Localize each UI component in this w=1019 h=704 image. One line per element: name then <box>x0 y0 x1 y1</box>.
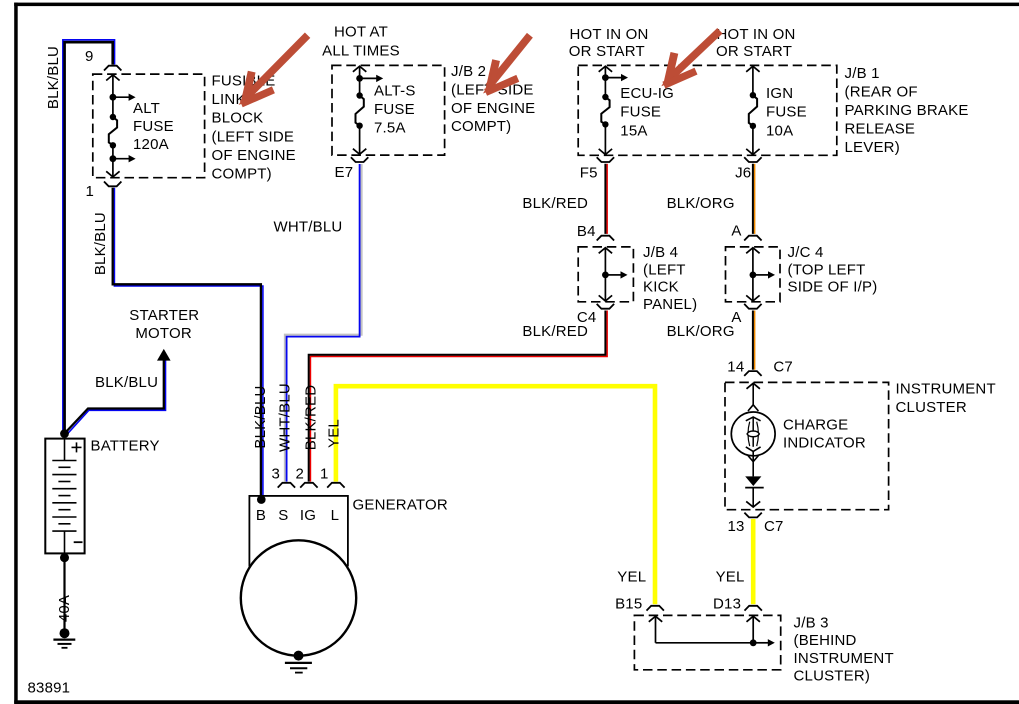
svg-text:83891: 83891 <box>28 680 71 697</box>
svg-text:J/B 1: J/B 1 <box>845 65 880 82</box>
svg-text:BLK/RED: BLK/RED <box>522 195 588 212</box>
label J/B 2 location <box>451 63 535 135</box>
connector B15 <box>615 596 664 613</box>
pin 2 <box>296 466 318 488</box>
svg-text:SIDE OF I/P): SIDE OF I/P) <box>788 279 878 296</box>
label J/C 4 location <box>788 244 878 296</box>
svg-text:IGN: IGN <box>766 85 793 102</box>
svg-text:J/B 4: J/B 4 <box>643 244 678 261</box>
svg-text:FUSE: FUSE <box>620 104 661 121</box>
wire W4 battery negative to ground <box>60 553 69 633</box>
svg-text:BLK/ORG: BLK/ORG <box>667 323 735 340</box>
svg-text:STARTER: STARTER <box>129 307 199 324</box>
svg-text:10A: 10A <box>766 122 793 139</box>
charge indicator lamp <box>731 383 775 476</box>
svg-text:INSTRUMENT: INSTRUMENT <box>794 650 894 667</box>
svg-text:CHARGE: CHARGE <box>783 417 848 434</box>
svg-text:C7: C7 <box>764 518 784 535</box>
fuse IGN FUSE 10A symbol <box>746 66 759 154</box>
svg-text:(LEFT SIDE: (LEFT SIDE <box>212 128 295 145</box>
svg-text:L: L <box>331 507 340 524</box>
fuse ALT FUSE 120A symbol <box>106 75 135 177</box>
svg-text:OF ENGINE: OF ENGINE <box>212 147 296 164</box>
svg-text:B4: B4 <box>577 223 596 240</box>
ground G2 (generator) <box>285 651 312 673</box>
label FUSIBLE LINK BLOCK location <box>212 73 296 183</box>
svg-text:BATTERY: BATTERY <box>91 437 160 454</box>
annotation arrow A2 (J/B 2) <box>483 35 530 93</box>
svg-text:ALL TIMES: ALL TIMES <box>322 43 400 60</box>
connector 13 C7 <box>728 513 784 535</box>
svg-text:C7: C7 <box>773 359 793 376</box>
svg-text:HOT IN ON: HOT IN ON <box>570 26 649 43</box>
svg-text:BLK/RED: BLK/RED <box>522 323 588 340</box>
svg-text:2: 2 <box>296 466 305 483</box>
svg-text:GENERATOR: GENERATOR <box>353 497 448 514</box>
connector D13 <box>713 596 762 613</box>
svg-text:BLOCK: BLOCK <box>212 110 264 127</box>
connector A (bottom) <box>731 304 761 326</box>
fuse ALT-S FUSE 7.5A symbol <box>353 66 383 154</box>
svg-text:COMPT): COMPT) <box>451 118 511 135</box>
label HOT IN ON OR START (IGN) <box>716 26 796 60</box>
svg-text:PARKING BRAKE: PARKING BRAKE <box>845 102 969 119</box>
wire W1 BLK/BLU battery positive to fusible link pin 9 <box>63 40 115 434</box>
label CHARGE INDICATOR <box>783 417 866 452</box>
connector J6 <box>735 157 762 182</box>
label HOT IN ON OR START (ECU-IG) <box>569 26 649 60</box>
svg-text:B: B <box>256 507 266 524</box>
svg-text:J/C 4: J/C 4 <box>788 244 824 261</box>
annotation arrow A3 (ECU-IG fuse) <box>661 31 720 87</box>
svg-text:CLUSTER: CLUSTER <box>896 399 967 416</box>
svg-text:J/B 3: J/B 3 <box>794 615 829 632</box>
svg-text:INDICATOR: INDICATOR <box>783 435 866 452</box>
svg-text:COMPT): COMPT) <box>212 166 272 183</box>
svg-text:ALT: ALT <box>133 100 160 117</box>
svg-text:RELEASE: RELEASE <box>845 120 916 137</box>
svg-text:OR START: OR START <box>716 43 792 60</box>
wire W3 BLK/BLU branch to starter motor <box>65 359 166 435</box>
junction block J/B 1 (dashed box) <box>578 65 837 155</box>
svg-text:YEL: YEL <box>716 569 745 586</box>
svg-text:HOT IN ON: HOT IN ON <box>717 26 796 43</box>
label STARTER MOTOR <box>129 307 199 342</box>
svg-text:LEVER): LEVER) <box>845 139 900 156</box>
svg-text:IG: IG <box>300 507 316 524</box>
svg-text:15A: 15A <box>620 122 647 139</box>
pin 1 <box>86 182 122 201</box>
label INSTRUMENT CLUSTER <box>896 381 996 417</box>
svg-text:CLUSTER): CLUSTER) <box>794 668 871 685</box>
svg-text:YEL: YEL <box>326 419 343 448</box>
value label ALT FUSE 120A <box>133 100 174 153</box>
svg-text:13: 13 <box>728 518 745 535</box>
starter motor arrow <box>157 349 171 361</box>
svg-text:E7: E7 <box>335 164 354 181</box>
label J/B 1 location <box>845 65 969 156</box>
svg-text:HOT AT: HOT AT <box>334 24 388 41</box>
ground G1 (battery) <box>53 628 75 648</box>
svg-text:BLK/BLU: BLK/BLU <box>45 46 62 109</box>
svg-text:J6: J6 <box>735 165 751 182</box>
connector E7 <box>335 157 369 181</box>
svg-text:S: S <box>278 507 288 524</box>
svg-text:OF ENGINE: OF ENGINE <box>451 100 535 117</box>
junction connector J/C 4 (dashed box) <box>726 247 781 302</box>
connector F5 <box>580 157 614 182</box>
svg-text:BLK/ORG: BLK/ORG <box>667 195 735 212</box>
svg-text:A: A <box>731 222 741 239</box>
svg-text:3: 3 <box>272 466 281 483</box>
label J/B 3 location <box>794 615 894 685</box>
svg-text:ALT-S: ALT-S <box>374 82 416 99</box>
label J/B 4 location <box>643 244 697 313</box>
svg-text:1: 1 <box>86 183 95 200</box>
svg-text:(LEFT: (LEFT <box>643 261 686 278</box>
svg-text:1: 1 <box>320 466 329 483</box>
svg-text:MOTOR: MOTOR <box>135 325 192 342</box>
value label IGN FUSE 10A <box>766 85 807 139</box>
junction block J/B 4 (dashed box) <box>578 247 633 302</box>
svg-text:FUSE: FUSE <box>374 101 415 118</box>
svg-text:YEL: YEL <box>617 569 646 586</box>
fuse ECU-IG FUSE 15A symbol <box>599 66 628 154</box>
svg-text:WHT/BLU: WHT/BLU <box>274 219 343 236</box>
svg-text:F5: F5 <box>580 165 598 182</box>
svg-text:PANEL): PANEL) <box>643 296 697 313</box>
svg-text:7.5A: 7.5A <box>374 119 406 136</box>
pin 1 <box>320 466 345 488</box>
svg-text:BLK/RED: BLK/RED <box>302 385 319 451</box>
svg-text:INSTRUMENT: INSTRUMENT <box>896 381 996 398</box>
svg-text:D13: D13 <box>713 596 741 613</box>
generator terminal labels B S IG L <box>256 507 339 524</box>
generator box <box>249 496 348 566</box>
instrument cluster (dashed box) <box>725 382 889 509</box>
diode D1 (charge indicator) <box>745 476 764 507</box>
annotation arrow A1 (fusible link block) <box>239 35 308 105</box>
J/B 3 internal circuit <box>649 616 775 646</box>
fusible link block (dashed box) <box>93 74 205 178</box>
svg-text:KICK: KICK <box>643 279 679 296</box>
svg-text:14: 14 <box>727 359 744 376</box>
wire W10 YEL generator terminal L to J/B 3 B15 <box>336 386 655 604</box>
junction block J/B 2 (dashed box) <box>332 65 445 155</box>
svg-text:(REAR OF: (REAR OF <box>845 83 918 100</box>
connector A (top) <box>731 222 761 240</box>
pin 3 <box>272 466 296 488</box>
wire W9 BLK/ORG to instrument cluster pin 14 <box>753 311 755 370</box>
svg-text:40A: 40A <box>56 595 73 622</box>
node generator B junction <box>257 495 266 504</box>
node battery positive junction <box>60 429 69 438</box>
svg-text:FUSE: FUSE <box>133 118 174 135</box>
wire W2 BLK/BLU fusible link pin 1 to generator terminal B <box>113 188 263 498</box>
svg-text:J/B 2: J/B 2 <box>451 63 486 80</box>
svg-text:WHT/BLU: WHT/BLU <box>276 383 293 452</box>
battery <box>45 439 84 554</box>
pin 9 <box>85 48 121 71</box>
svg-text:BLK/BLU: BLK/BLU <box>95 374 158 391</box>
svg-text:9: 9 <box>85 48 94 65</box>
value label ALT-S FUSE 7.5A <box>374 82 416 136</box>
junction block J/B 3 (dashed box) <box>634 615 780 669</box>
svg-text:(TOP LEFT: (TOP LEFT <box>788 261 866 278</box>
wire W11 YEL instrument cluster 13 to J/B 3 D13 <box>751 519 756 604</box>
wire W5 WHT/BLU connector E7 to generator terminal S <box>285 164 362 482</box>
wire W7 BLK/RED C4 to generator terminal IG <box>309 311 607 482</box>
svg-text:FUSE: FUSE <box>766 104 807 121</box>
J/C 4 internal circuit <box>746 248 775 301</box>
label HOT AT ALL TIMES <box>322 24 400 60</box>
svg-text:(BEHIND: (BEHIND <box>794 632 857 649</box>
svg-text:BLK/BLU: BLK/BLU <box>92 212 109 275</box>
svg-text:OR START: OR START <box>569 43 645 60</box>
connector 14 C7 <box>727 359 793 376</box>
wire W6 BLK/RED F5 to J/B 4 B4 <box>605 164 607 234</box>
value label ECU-IG FUSE 15A <box>620 85 674 139</box>
connector B4 <box>577 223 614 241</box>
generator rotor circle <box>241 540 356 655</box>
connector C4 <box>577 304 614 326</box>
J/B 4 internal circuit <box>599 248 628 301</box>
svg-text:120A: 120A <box>133 136 169 153</box>
svg-text:LINK: LINK <box>212 91 246 108</box>
svg-text:BLK/BLU: BLK/BLU <box>252 385 269 448</box>
svg-text:B15: B15 <box>615 596 642 613</box>
wire W8 BLK/ORG J6 to J/C 4 <box>753 164 755 234</box>
